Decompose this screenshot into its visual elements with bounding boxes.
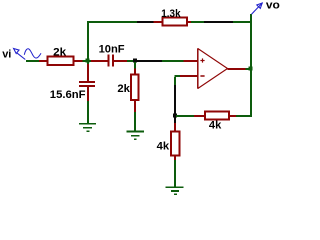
svg-text:2k: 2k: [117, 83, 130, 95]
wire right vertical output net: [250, 14, 252, 117]
svg-text:vo: vo: [266, 0, 280, 11]
capacitor C 15.6nF plates: [79, 81, 95, 83]
left ground symbol: [79, 123, 96, 125]
node A junction dot: [86, 59, 90, 63]
resistor R 4k vertical body: [171, 132, 180, 156]
op-amp - input marker: [200, 75, 204, 77]
wire node A to C 10nF: [91, 60, 108, 62]
svg-text:10nF: 10nF: [99, 43, 125, 55]
wire R 2k vertical to middle ground: [134, 100, 136, 112]
wire R 4k vertical to bottom ground: [174, 156, 176, 161]
op-amp + input marker: [200, 58, 204, 62]
node B junction dot: [133, 59, 137, 63]
wire R 2k to node A: [74, 60, 83, 62]
input terminal vi arrow: [14, 49, 26, 60]
resistor R 2k horizontal body: [48, 57, 74, 66]
bottom right ground symbol: [166, 186, 184, 188]
wire node A down to C 15.6nF: [87, 62, 89, 64]
source vi sine symbol: [24, 49, 41, 58]
wire left riser node A to top wire: [87, 21, 89, 60]
resistor R 2k vertical body: [131, 75, 139, 101]
output terminal vo arrow: [252, 3, 263, 14]
wire C 10nF to node B: [114, 60, 127, 62]
svg-text:4k: 4k: [209, 120, 222, 132]
wire op-amp output: [228, 68, 246, 70]
svg-text:2k: 2k: [53, 47, 67, 59]
wire R 4k horizontal to output net: [229, 115, 236, 117]
wire node B riser down to R 2k vertical: [134, 62, 136, 69]
wire junction to R 4k vertical: [174, 123, 176, 132]
wire junction to R 4k horizontal: [176, 115, 194, 117]
middle ground symbol: [127, 131, 145, 133]
wire - input riser down to 4k junction: [174, 77, 176, 85]
capacitor C 10nF plates: [108, 55, 110, 67]
wire top feedback (node A riser to output node): [88, 21, 137, 23]
svg-text:4k: 4k: [157, 141, 170, 153]
wire op-amp - input: [175, 75, 181, 77]
feedback junction dot: [173, 114, 177, 118]
resistor R 4k horizontal body: [205, 112, 229, 120]
svg-text:15.6nF: 15.6nF: [50, 89, 86, 101]
svg-text:1.3k: 1.3k: [161, 8, 181, 20]
svg-text:vi: vi: [2, 49, 11, 61]
wire input from source vi to R 2k: [26, 60, 39, 62]
resistor R 1.3k body: [163, 18, 188, 26]
wire node B to op-amp + input: [136, 60, 162, 62]
op-amp U1 triangle: [198, 48, 228, 88]
wire C 15.6nF to left ground: [87, 87, 89, 101]
output node junction dot: [249, 67, 253, 71]
